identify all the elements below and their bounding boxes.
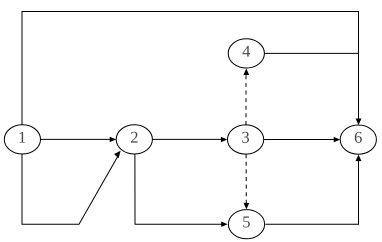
- arrowhead into node 5 left: [221, 222, 228, 227]
- wire edge 1->2 direct: [41, 138, 112, 140]
- arrowhead into node 6 bottom: [356, 155, 362, 162]
- wire edge 1->2 bottom route: [22, 154, 118, 224]
- arrowhead into node 2 lower-left: [114, 151, 121, 159]
- arrowhead into node 4 bottom: [243, 69, 249, 76]
- arrowhead into node 6 left: [334, 137, 341, 142]
- wire edge 4->6 horizontal: [264, 52, 358, 54]
- wire edge 1->6 top route: [22, 12, 359, 126]
- node 3: [228, 125, 264, 154]
- arrowhead into node 2 left: [110, 137, 117, 142]
- arrowhead into node 3 left: [221, 137, 228, 142]
- wire edge 3->5 dashed: [245, 154, 247, 204]
- arrowhead into node 5 top: [244, 203, 250, 210]
- node 4: [228, 39, 264, 68]
- arrowhead into node 6 top: [356, 119, 362, 126]
- node 1: [4, 125, 40, 154]
- wire edge 2->3: [153, 138, 223, 140]
- wire edge 3->6: [264, 139, 335, 141]
- node 2: [116, 125, 152, 154]
- wire edge 5->6 bottom route: [265, 156, 358, 224]
- node 5: [228, 210, 264, 239]
- wire edge 3->4 dashed: [245, 74, 247, 125]
- wire edge 2->5 bottom route: [135, 154, 222, 224]
- node 6: [340, 125, 376, 154]
